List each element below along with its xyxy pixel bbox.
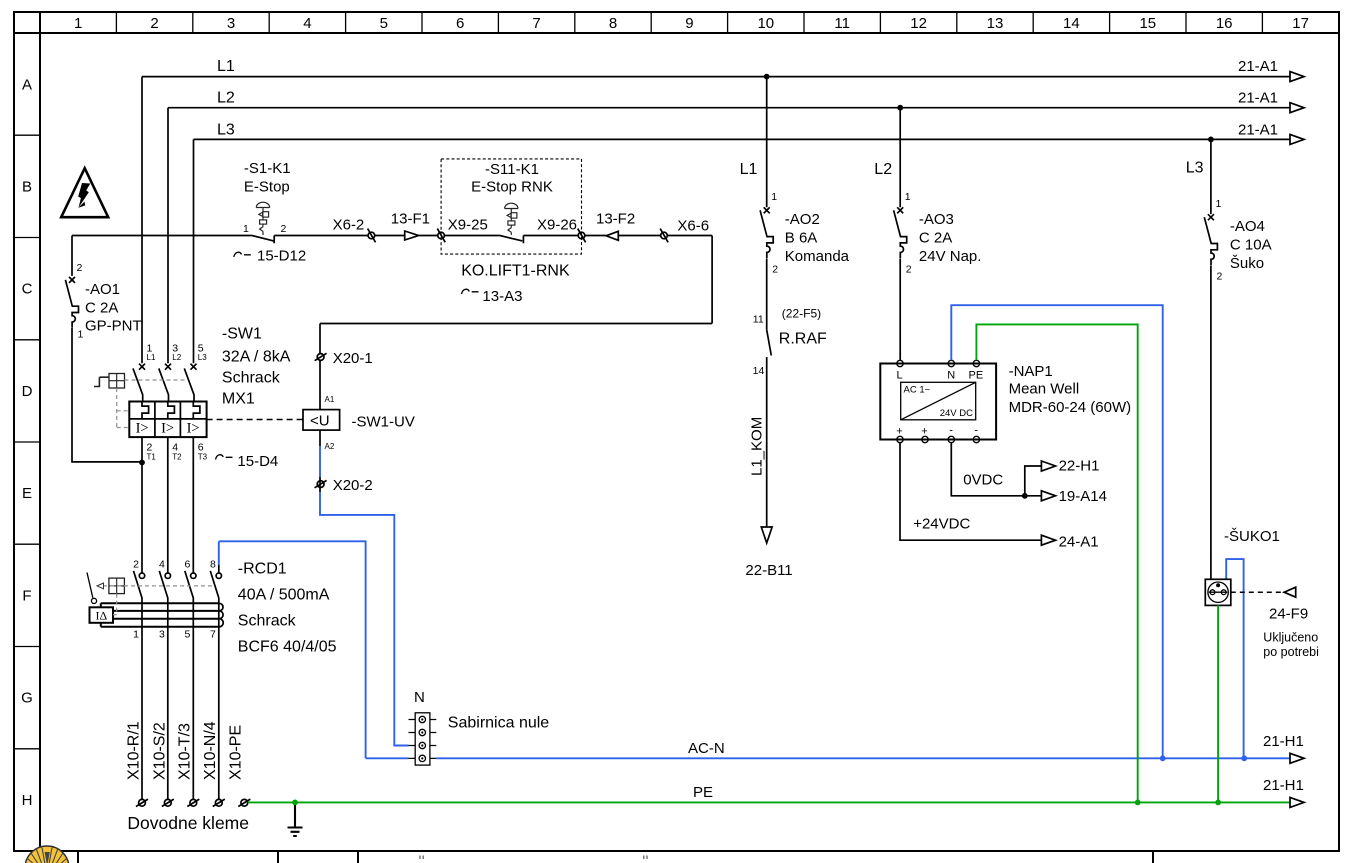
svg-text:13: 13	[987, 15, 1004, 32]
svg-text:13-F2: 13-F2	[596, 211, 635, 228]
svg-text:T1: T1	[147, 453, 157, 462]
svg-text:6: 6	[456, 15, 464, 32]
svg-text:AC 1~: AC 1~	[904, 385, 931, 396]
svg-text:E-Stop: E-Stop	[244, 179, 290, 196]
svg-text:E: E	[22, 485, 32, 502]
svg-text:21-A1: 21-A1	[1238, 122, 1278, 139]
svg-text:2: 2	[150, 15, 158, 32]
svg-text:2: 2	[281, 223, 287, 235]
svg-text:5: 5	[184, 629, 190, 641]
svg-text:X9-25: X9-25	[448, 217, 488, 234]
svg-text:40A / 500mA: 40A / 500mA	[238, 587, 330, 604]
svg-text:-S1-K1: -S1-K1	[244, 160, 291, 177]
svg-text:L1: L1	[740, 161, 758, 178]
svg-text:Schrack: Schrack	[238, 613, 297, 630]
svg-text:3: 3	[227, 15, 235, 32]
svg-text:C 10A: C 10A	[1230, 237, 1272, 254]
svg-text:-AO3: -AO3	[919, 211, 954, 228]
svg-text:21-H1: 21-H1	[1263, 733, 1304, 750]
svg-text:X10-PE: X10-PE	[228, 725, 245, 780]
svg-text:-AO4: -AO4	[1230, 218, 1265, 235]
svg-text:E-Stop RNK: E-Stop RNK	[471, 179, 553, 196]
svg-text:X6-2: X6-2	[333, 217, 365, 234]
svg-text:24V Nap.: 24V Nap.	[919, 248, 982, 265]
svg-text:X9-26: X9-26	[537, 217, 577, 234]
svg-text:17: 17	[1292, 15, 1309, 32]
svg-text:-NAP1: -NAP1	[1009, 363, 1053, 380]
svg-text:L2: L2	[172, 353, 181, 362]
svg-text:2: 2	[906, 264, 912, 276]
svg-text:2: 2	[133, 559, 139, 571]
svg-text:po potrebi: po potrebi	[1263, 645, 1319, 659]
svg-text:2: 2	[1217, 271, 1223, 283]
svg-text:13-A3: 13-A3	[482, 288, 522, 305]
svg-text:1: 1	[78, 329, 84, 341]
svg-text:4: 4	[303, 15, 311, 32]
svg-text:16: 16	[1216, 15, 1233, 32]
svg-text:X20-1: X20-1	[333, 350, 373, 367]
svg-text:21-A1: 21-A1	[1238, 58, 1278, 75]
svg-text:MDR-60-24 (60W): MDR-60-24 (60W)	[1009, 399, 1132, 416]
svg-text:-RCD1: -RCD1	[238, 561, 287, 578]
svg-text:Šuko: Šuko	[1230, 255, 1264, 272]
svg-text:IΔ: IΔ	[96, 609, 108, 623]
svg-text:Dovodne kleme: Dovodne kleme	[127, 813, 249, 833]
svg-text:I>: I>	[136, 421, 149, 437]
svg-text:L1: L1	[147, 353, 156, 362]
svg-text:-SW1-UV: -SW1-UV	[352, 414, 415, 431]
svg-text:1: 1	[133, 629, 139, 641]
svg-text:5: 5	[380, 15, 388, 32]
svg-text:11: 11	[834, 15, 850, 32]
svg-text:Uključeno: Uključeno	[1263, 631, 1318, 645]
svg-text:B 6A: B 6A	[785, 230, 818, 247]
svg-text:X10-S/2: X10-S/2	[151, 722, 168, 780]
svg-text:21-A1: 21-A1	[1238, 90, 1278, 107]
svg-text:Komanda: Komanda	[785, 248, 850, 265]
svg-text:X20-2: X20-2	[333, 477, 373, 494]
svg-text:N: N	[947, 370, 955, 382]
svg-text:Schrack: Schrack	[222, 370, 281, 387]
svg-text:-ŠUKO1: -ŠUKO1	[1224, 528, 1280, 545]
svg-text:A2: A2	[325, 442, 335, 451]
svg-text:2: 2	[772, 264, 778, 276]
svg-text:+: +	[921, 426, 927, 438]
svg-text:15-D4: 15-D4	[237, 453, 278, 470]
svg-text:X6-6: X6-6	[677, 218, 709, 235]
svg-text:L3: L3	[198, 353, 207, 362]
svg-text:PE: PE	[693, 784, 713, 801]
svg-text:1: 1	[1216, 198, 1222, 210]
svg-text:32A / 8kA: 32A / 8kA	[222, 349, 291, 366]
svg-text:(22-F5): (22-F5)	[782, 307, 821, 321]
svg-text:<U: <U	[310, 413, 330, 430]
svg-text:F: F	[22, 588, 31, 605]
svg-text:L2: L2	[874, 161, 892, 178]
svg-text:A: A	[22, 77, 32, 94]
svg-text:C 2A: C 2A	[919, 230, 952, 247]
svg-text:-: -	[974, 425, 978, 437]
svg-text:B: B	[22, 179, 32, 196]
svg-text:6: 6	[184, 559, 190, 571]
svg-text:+24VDC: +24VDC	[913, 516, 970, 533]
svg-text:3: 3	[159, 629, 165, 641]
svg-text:2: 2	[77, 262, 83, 274]
svg-text:MX1: MX1	[222, 391, 255, 408]
svg-text:15: 15	[1139, 15, 1156, 32]
svg-text:D: D	[22, 383, 33, 400]
svg-text:1: 1	[243, 223, 249, 235]
svg-text:AC-N: AC-N	[688, 740, 725, 757]
svg-text:T2: T2	[172, 453, 182, 462]
svg-text:T3: T3	[198, 453, 208, 462]
svg-text:GP-PNT: GP-PNT	[85, 318, 142, 335]
svg-text:11: 11	[753, 314, 764, 326]
svg-text:14: 14	[753, 365, 765, 377]
svg-text:19-A14: 19-A14	[1059, 488, 1107, 505]
svg-text:H: H	[22, 792, 33, 809]
svg-text:L1: L1	[217, 58, 235, 75]
svg-text:G: G	[21, 690, 33, 707]
svg-text:22-H1: 22-H1	[1059, 458, 1100, 475]
svg-text:I>: I>	[161, 421, 174, 437]
svg-text:C: C	[22, 281, 33, 298]
svg-text:1: 1	[905, 191, 911, 203]
svg-text:7: 7	[532, 15, 540, 32]
svg-text:4: 4	[159, 559, 165, 571]
svg-text:15-D12: 15-D12	[257, 248, 306, 265]
svg-text:BCF6 40/4/05: BCF6 40/4/05	[238, 639, 337, 656]
svg-text:12: 12	[910, 15, 927, 32]
svg-text:8: 8	[210, 559, 216, 571]
svg-text:X10-R/1: X10-R/1	[126, 721, 143, 780]
svg-text:N: N	[414, 689, 425, 706]
svg-text:-AO2: -AO2	[785, 211, 820, 228]
svg-text:22-B11: 22-B11	[745, 562, 792, 579]
svg-text:L3: L3	[1186, 160, 1204, 177]
svg-text:24V DC: 24V DC	[940, 408, 973, 419]
svg-text:X10-T/3: X10-T/3	[177, 723, 194, 780]
svg-text:-AO1: -AO1	[85, 281, 120, 298]
svg-text:1: 1	[74, 15, 82, 32]
svg-text:R.RAF: R.RAF	[779, 331, 827, 348]
svg-text:-: -	[949, 425, 953, 437]
svg-text:KO.LIFT1-RNK: KO.LIFT1-RNK	[461, 263, 570, 280]
svg-text:24-A1: 24-A1	[1059, 534, 1099, 551]
svg-text:A1: A1	[325, 395, 335, 404]
svg-text:14: 14	[1063, 15, 1080, 32]
svg-text:L3: L3	[217, 122, 235, 139]
svg-text:21-H1: 21-H1	[1263, 777, 1304, 794]
svg-text:13-F1: 13-F1	[391, 211, 430, 228]
svg-text:-SW1: -SW1	[222, 326, 262, 343]
svg-text:PE: PE	[969, 370, 984, 382]
svg-text:I>: I>	[187, 421, 200, 437]
svg-text:Sabirnica nule: Sabirnica nule	[448, 715, 550, 732]
svg-text:10: 10	[757, 15, 774, 32]
svg-text:24-F9: 24-F9	[1269, 606, 1308, 623]
svg-text:C 2A: C 2A	[85, 300, 118, 317]
svg-text:8: 8	[609, 15, 617, 32]
svg-text:L2: L2	[217, 90, 235, 107]
svg-text:9: 9	[685, 15, 693, 32]
svg-text:Mean Well: Mean Well	[1009, 381, 1080, 398]
svg-text:L: L	[897, 370, 903, 382]
svg-text:-S11-K1: -S11-K1	[485, 161, 539, 178]
svg-text:0VDC: 0VDC	[963, 472, 1003, 489]
svg-text:X10-N/4: X10-N/4	[202, 721, 219, 780]
svg-text:1: 1	[771, 191, 777, 203]
svg-text:L1_KOM: L1_KOM	[749, 417, 766, 476]
svg-text:7: 7	[210, 629, 216, 641]
svg-text:+: +	[896, 426, 902, 438]
